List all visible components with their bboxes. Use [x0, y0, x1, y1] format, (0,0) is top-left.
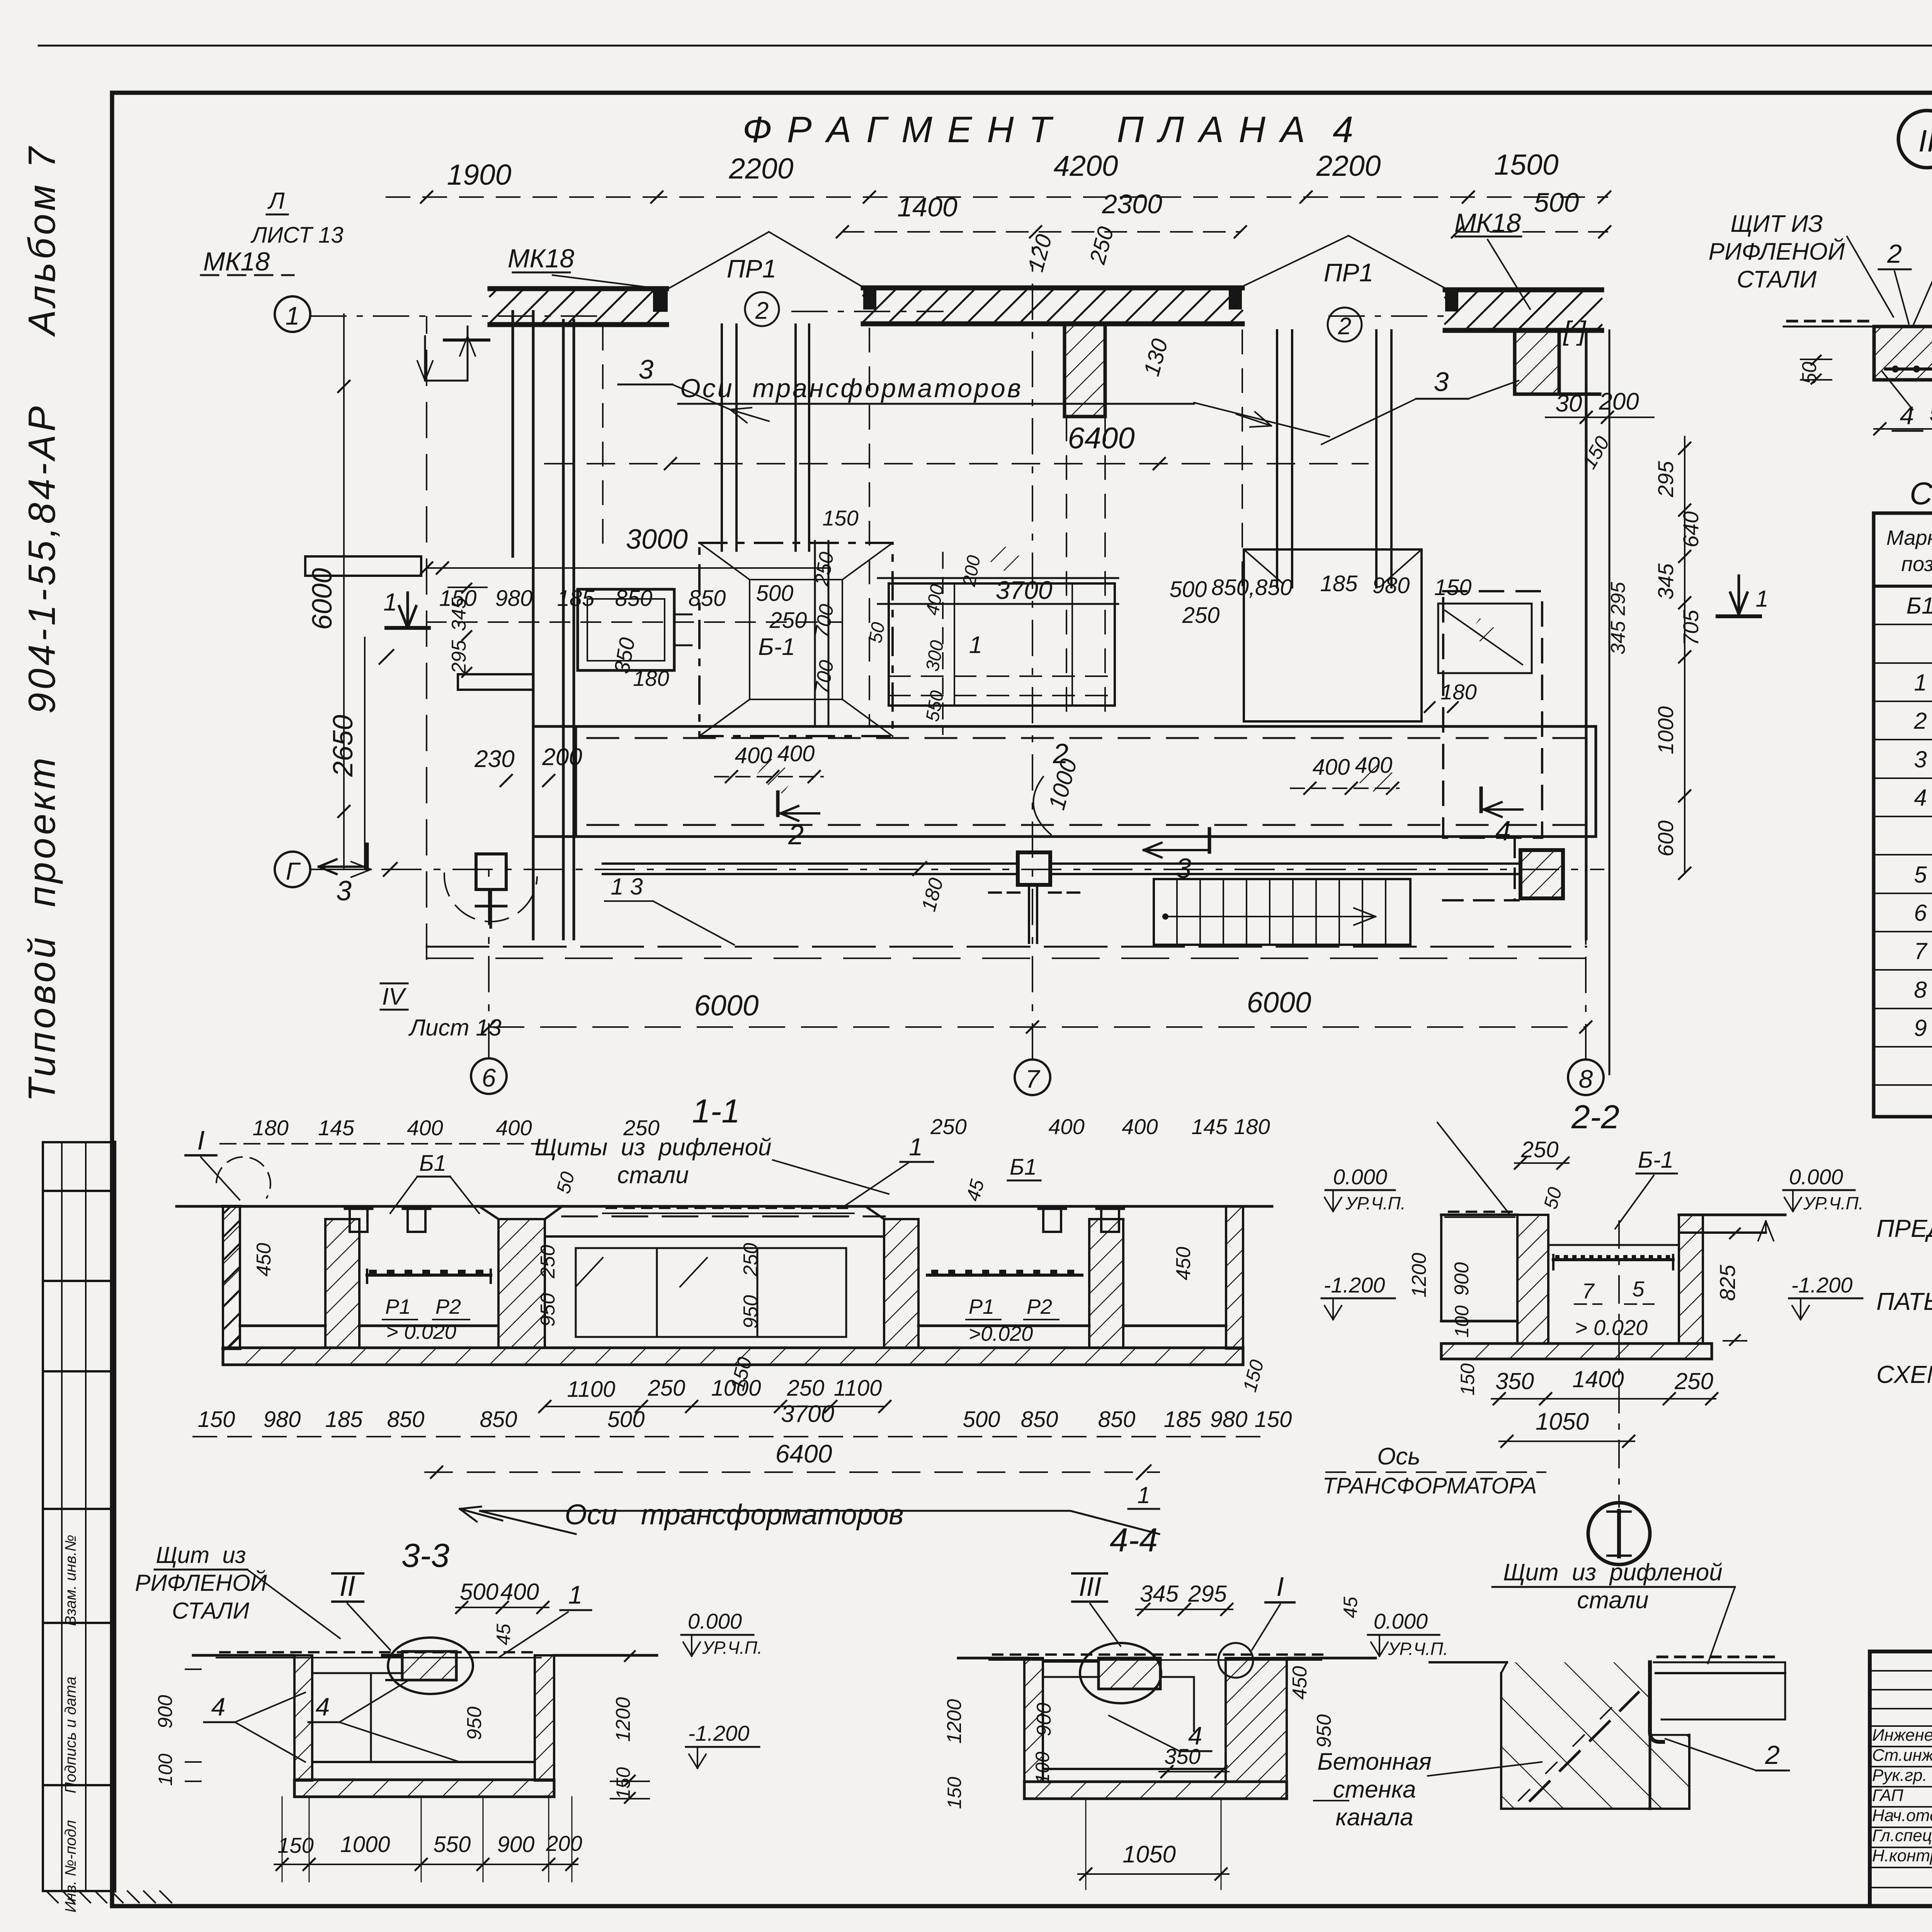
s11 mid wall big [498, 1219, 545, 1348]
square axis7/G [1018, 852, 1050, 885]
wall A end cap [653, 289, 668, 312]
svg-text:1400: 1400 [897, 192, 957, 222]
svg-text:3700: 3700 [781, 1401, 834, 1427]
svg-text:4: 4 [1900, 401, 1914, 430]
svg-text:400: 400 [500, 1579, 539, 1605]
svg-text:ПРЕДУСМОТРЕТЬ УСТАНОВКУ ЗАКЛ: ПРЕДУСМОТРЕТЬ УСТАНОВКУ ЗАКЛАДНЫХ ЭЛЕМЕН… [1876, 1214, 1932, 1242]
svg-text:500: 500 [756, 581, 794, 606]
svg-text:200: 200 [1599, 388, 1639, 415]
svg-text:185: 185 [1320, 571, 1358, 596]
left stub 1 [305, 556, 421, 576]
svg-text:7: 7 [1026, 1065, 1041, 1093]
s33 lintel top [402, 1651, 456, 1680]
svg-text:1200: 1200 [943, 1699, 966, 1744]
svg-text:6400: 6400 [1068, 421, 1135, 455]
svg-text:Оси трансформаторов: Оси трансформаторов [565, 1498, 903, 1531]
bottom-left of titleblock smudge [1870, 1904, 1932, 1908]
svg-text:СТАЛИ: СТАЛИ [172, 1598, 249, 1624]
s33 bottom slab [294, 1780, 554, 1797]
svg-text:150: 150 [944, 1777, 965, 1809]
s44 interior [1043, 1676, 1099, 1678]
svg-text:1500: 1500 [1494, 148, 1559, 181]
svg-text:345: 345 [1140, 1581, 1179, 1607]
svg-text:550: 550 [434, 1832, 471, 1857]
s22 bottom slab [1441, 1344, 1712, 1359]
svg-text:400: 400 [735, 743, 772, 768]
svg-text:1: 1 [286, 301, 300, 330]
svg-text:200: 200 [546, 1831, 582, 1855]
svg-text:Ст.инж.: Ст.инж. [1872, 1746, 1932, 1765]
svg-text:1000: 1000 [340, 1832, 390, 1857]
svg-text:МК18: МК18 [1454, 208, 1521, 238]
svg-text:1050: 1050 [1122, 1841, 1176, 1868]
svg-text:Типовой проект 904-1-55,84-: Типовой проект 904-1-55,84-АР Альбом 7 [20, 144, 63, 1102]
svg-text:ПР1: ПР1 [1324, 258, 1374, 287]
s44 oval III [1080, 1643, 1161, 1703]
svg-text:УР.Ч.П.: УР.Ч.П. [1803, 1193, 1864, 1213]
svg-text:I: I [1276, 1571, 1284, 1602]
svg-text:Инженер: Инженер [1872, 1726, 1932, 1745]
svg-text:145: 145 [318, 1116, 354, 1140]
s44 lintel [1099, 1658, 1160, 1689]
s44 pit left wall [1024, 1658, 1043, 1782]
svg-text:2650: 2650 [328, 715, 359, 777]
svg-text:250: 250 [930, 1114, 966, 1139]
beam lines right [1050, 862, 1519, 865]
detail I ground line [1430, 1661, 1507, 1663]
svg-text:5: 5 [1632, 1277, 1645, 1301]
svg-text:Гл.спец.ТО: Гл.спец.ТО [1872, 1826, 1932, 1845]
svg-text:Г: Г [286, 857, 301, 885]
svg-text:980: 980 [264, 1407, 301, 1432]
svg-text:550: 550 [1929, 400, 1932, 427]
svg-text:II: II [339, 1570, 355, 1602]
s11 left pit [240, 1325, 325, 1327]
svg-text:[ ]: [ ] [1563, 316, 1587, 346]
detail II dim 550 [1874, 428, 1932, 430]
axis circle 6 [471, 1058, 507, 1094]
svg-text:120: 120 [1023, 232, 1057, 274]
bay1 transformer cell [578, 589, 674, 670]
s22 channel floor [1548, 1342, 1679, 1345]
svg-text:950: 950 [537, 1293, 559, 1327]
svg-text:ГАП: ГАП [1872, 1786, 1903, 1805]
s11 grate right [927, 1274, 1082, 1277]
wall B [863, 286, 1242, 291]
svg-text:6: 6 [482, 1063, 496, 1092]
plan bottom boundary lines [427, 946, 1586, 948]
svg-text:III: III [1079, 1571, 1101, 1602]
title block outer [1870, 1651, 1932, 1906]
svg-text:1: 1 [383, 588, 397, 616]
svg-text:Р2: Р2 [1027, 1295, 1052, 1318]
svg-text:350: 350 [1164, 1744, 1200, 1769]
svg-text:ПАТЬ СЛОЕМ ГРАВИЯ ТОЛЩИНОЙ: ПАТЬ СЛОЕМ ГРАВИЯ ТОЛЩИНОЙ 250 мм, КРУПН… [1876, 1287, 1932, 1315]
svg-text:УР.Ч.П.: УР.Ч.П. [1388, 1639, 1448, 1659]
svg-text:850: 850 [1098, 1407, 1136, 1432]
svg-text:СТАЛИ: СТАЛИ [1737, 266, 1817, 293]
section mark 3 left low [319, 866, 367, 868]
stair [1154, 879, 1410, 945]
svg-text:Бетонная: Бетонная [1317, 1748, 1431, 1775]
s11 right wall big [884, 1219, 918, 1348]
dim 400 400 left [715, 776, 823, 777]
svg-text:Р1: Р1 [969, 1295, 994, 1318]
square axis8/G hatched [1520, 850, 1563, 898]
section arrow 1 right [1738, 576, 1740, 614]
svg-text:450: 450 [1172, 1247, 1195, 1281]
axis circle G [275, 852, 310, 887]
svg-text:0.000: 0.000 [688, 1609, 742, 1633]
svg-text:0.000: 0.000 [1374, 1609, 1428, 1633]
right vert dim chain [1684, 437, 1685, 873]
svg-text:1: 1 [1755, 586, 1768, 612]
s22 shield leader [1437, 1122, 1509, 1213]
svg-text:3700: 3700 [996, 576, 1053, 604]
svg-text:-1.200: -1.200 [1791, 1273, 1853, 1297]
detail II circle [1898, 111, 1932, 168]
svg-text:канала: канала [1335, 1804, 1413, 1831]
svg-text:350: 350 [1495, 1368, 1534, 1394]
s11 left outer wall [223, 1205, 240, 1208]
svg-text:2300: 2300 [1102, 189, 1162, 219]
s33 interior lines [312, 1672, 402, 1674]
svg-text:СХЕМУ РАСКЛАДКИ ЩИТОВ СМ. Н: СХЕМУ РАСКЛАДКИ ЩИТОВ СМ. НА ЛИСТЕ ТП 90… [1876, 1361, 1932, 1388]
svg-text:3: 3 [639, 354, 654, 384]
right wall verticals [1585, 330, 1588, 939]
bay3 inner dashed [1443, 591, 1542, 838]
s33 pit left wall [294, 1655, 312, 1781]
s44 circle I small [1218, 1643, 1253, 1678]
svg-text:500: 500 [460, 1579, 498, 1605]
svg-text:Взам. инв.№: Взам. инв.№ [62, 1535, 79, 1626]
svg-text:1050: 1050 [1536, 1408, 1589, 1435]
wall B end caps [863, 288, 876, 310]
svg-text:980: 980 [495, 586, 533, 611]
svg-text:стали: стали [1577, 1587, 1648, 1614]
svg-text:МК18: МК18 [203, 247, 270, 276]
svg-text:1900: 1900 [447, 158, 512, 191]
svg-text:30: 30 [1556, 390, 1582, 417]
svg-text:45: 45 [1340, 1597, 1361, 1618]
svg-text:400: 400 [1313, 755, 1350, 780]
svg-text:4: 4 [211, 1692, 226, 1721]
svg-text:500: 500 [607, 1407, 645, 1432]
axis 8 vertical [1585, 907, 1587, 1060]
svg-text:РИФЛЕНОЙ: РИФЛЕНОЙ [135, 1570, 267, 1596]
s33 pit right wall [535, 1655, 554, 1781]
bay2 rails [814, 541, 816, 726]
svg-text:РИФЛЕНОЙ: РИФЛЕНОЙ [1709, 238, 1845, 265]
s22 right top flare [1679, 1214, 1703, 1216]
svg-text:1200: 1200 [612, 1697, 634, 1742]
svg-text:Б-1: Б-1 [1638, 1147, 1673, 1173]
detail II rebar [1886, 367, 1932, 371]
svg-text:-1.200: -1.200 [1324, 1273, 1385, 1297]
svg-text:Щит из: Щит из [156, 1542, 246, 1568]
svg-text:Нач.отд.: Нач.отд. [1872, 1806, 1932, 1825]
svg-text:Рук.гр.: Рук.гр. [1872, 1766, 1927, 1785]
svg-text:I: I [197, 1125, 204, 1155]
axis G line [311, 869, 1604, 870]
svg-text:300: 300 [922, 639, 948, 673]
svg-text:1: 1 [909, 1133, 923, 1161]
left wall verticals [512, 311, 514, 556]
s22 right wall hatched [1679, 1215, 1703, 1344]
svg-text:ЛИСТ 13: ЛИСТ 13 [250, 223, 343, 248]
s11 oil pit left P1 P2 [359, 1325, 496, 1327]
dim 3000 plan [427, 567, 827, 569]
svg-text:Щит из рифленой: Щит из рифленой [1503, 1559, 1722, 1586]
svg-text:5: 5 [1914, 862, 1927, 888]
wall C end cap [1445, 290, 1458, 311]
priyamok right dashes [1514, 838, 1516, 900]
svg-text:Б1: Б1 [1010, 1155, 1037, 1180]
svg-text:2: 2 [755, 298, 769, 324]
svg-text:180: 180 [1440, 680, 1476, 704]
spec table grid [1874, 513, 1932, 1117]
detail I steel angle [1650, 1662, 1663, 1742]
svg-text:6: 6 [1914, 900, 1927, 926]
svg-text:поз.: поз. [1901, 553, 1932, 576]
axis circle 8 [1568, 1060, 1604, 1095]
wall C pier [1515, 330, 1559, 394]
svg-text:150: 150 [612, 1767, 634, 1799]
svg-text:295: 295 [448, 640, 470, 674]
svg-text:4: 4 [1914, 785, 1927, 811]
svg-text:УР.Ч.П.: УР.Ч.П. [1345, 1193, 1406, 1213]
svg-text:640: 640 [1679, 511, 1703, 547]
svg-text:IV: IV [382, 983, 407, 1010]
detail II concrete body [1874, 327, 1932, 380]
svg-text:250: 250 [787, 1376, 825, 1401]
svg-text:230: 230 [474, 746, 514, 772]
s22 axis vline [1618, 1221, 1620, 1507]
svg-text:6000: 6000 [1247, 986, 1311, 1019]
svg-text:400: 400 [496, 1116, 532, 1140]
section mark 3 right low [1144, 849, 1209, 851]
svg-text:250: 250 [623, 1116, 659, 1140]
axis 6 vertical [488, 869, 490, 1059]
svg-text:180: 180 [917, 876, 947, 914]
svg-text:ТРАНСФОРМАТОРА: ТРАНСФОРМАТОРА [1323, 1473, 1537, 1498]
section mark 4 plan [1484, 808, 1522, 811]
svg-text:-1.200: -1.200 [688, 1721, 750, 1745]
svg-text:1000: 1000 [711, 1376, 761, 1401]
roof lines right gap [1241, 236, 1349, 287]
s44 bottom slab [1024, 1782, 1287, 1799]
svg-text:400: 400 [777, 741, 815, 766]
s11 top dims left [220, 1143, 545, 1145]
svg-text:45: 45 [962, 1177, 988, 1203]
svg-text:150: 150 [822, 506, 858, 530]
s44 pit floor [1043, 1768, 1226, 1770]
svg-text:Оси трансформаторов: Оси трансформаторов [680, 374, 1023, 403]
wall C [1445, 287, 1602, 293]
svg-text:250: 250 [648, 1376, 685, 1401]
s11 right pit [1123, 1325, 1226, 1327]
svg-text:4: 4 [316, 1692, 330, 1721]
svg-text:180: 180 [252, 1116, 288, 1140]
svg-text:450: 450 [253, 1243, 275, 1277]
svg-text:600: 600 [1653, 820, 1678, 856]
detail I plate right [1654, 1662, 1785, 1663]
svg-text:180: 180 [1234, 1114, 1270, 1139]
svg-text:II: II [1918, 124, 1932, 158]
svg-text:1: 1 [969, 632, 982, 658]
svg-text:345 295: 345 295 [1607, 582, 1629, 655]
s11 dims below row2 [193, 1436, 1271, 1437]
svg-text:Марка,: Марка, [1886, 526, 1932, 549]
svg-text:1: 1 [1914, 670, 1927, 696]
svg-text:180: 180 [633, 666, 669, 690]
svg-text:150: 150 [277, 1833, 313, 1857]
sheet top edge line [39, 45, 1932, 47]
plan left vert dim 6000 [343, 314, 345, 869]
detail I concrete block [1501, 1662, 1689, 1809]
transformer block B [889, 583, 1115, 706]
svg-text:250: 250 [769, 608, 807, 633]
s11 ground line [177, 1205, 1272, 1208]
svg-text:Б1: Б1 [1906, 593, 1932, 619]
plan top dimension row 2 [842, 231, 1240, 233]
svg-text:3: 3 [1176, 853, 1191, 884]
s11 top plate dashes [562, 1216, 885, 1218]
left stub 2 [458, 674, 533, 690]
svg-text:2-2: 2-2 [1571, 1099, 1619, 1136]
circle 2 right [1328, 308, 1362, 342]
small dim box left [467, 327, 469, 381]
svg-text:стали: стали [617, 1162, 689, 1189]
witness dashed verticals [869, 328, 870, 726]
svg-text:900: 900 [497, 1832, 535, 1857]
svg-text:1000: 1000 [1653, 706, 1678, 755]
svg-text:Б1: Б1 [419, 1151, 446, 1176]
detail I circle mark [1588, 1503, 1650, 1565]
svg-text:2: 2 [1765, 1740, 1780, 1770]
s11 dims below row1 [545, 1406, 885, 1407]
svg-text:1000: 1000 [1044, 756, 1082, 813]
svg-text:1400: 1400 [1572, 1366, 1624, 1392]
section mark 2 [781, 812, 819, 815]
svg-text:900: 900 [1451, 1262, 1473, 1296]
svg-text:3: 3 [1434, 367, 1449, 397]
svg-text:185: 185 [1164, 1407, 1202, 1432]
svg-text:>0.020: >0.020 [969, 1322, 1033, 1345]
svg-text:150: 150 [198, 1407, 235, 1432]
svg-text:500: 500 [1534, 187, 1579, 218]
bay2 equipment [699, 543, 893, 736]
svg-text:100: 100 [1032, 1752, 1053, 1784]
svg-text:2: 2 [788, 820, 804, 850]
svg-text:295: 295 [1188, 1581, 1227, 1607]
svg-text:Б-1: Б-1 [758, 634, 795, 660]
svg-text:400: 400 [407, 1116, 443, 1140]
svg-text:295: 295 [1653, 461, 1678, 497]
s44 pit right wall wide [1226, 1658, 1287, 1782]
axis circle 1 [275, 296, 310, 332]
s11 center trench [545, 1235, 884, 1238]
detail I inner dash line [1530, 1692, 1638, 1801]
svg-text:250: 250 [1085, 224, 1119, 267]
svg-text:45: 45 [493, 1624, 514, 1645]
svg-text:Н.контр.: Н.контр. [1872, 1846, 1932, 1865]
svg-text:6400: 6400 [776, 1439, 832, 1468]
svg-text:0.000: 0.000 [1333, 1165, 1387, 1189]
svg-text:850: 850 [387, 1407, 425, 1432]
s22 channel interior [1548, 1244, 1679, 1246]
plan top dimension row 1 [386, 196, 1607, 198]
svg-text:705: 705 [1679, 609, 1703, 646]
svg-text:2: 2 [1338, 313, 1351, 340]
svg-text:9: 9 [1914, 1015, 1927, 1041]
svg-text:Подпись и дата: Подпись и дата [62, 1677, 79, 1794]
svg-text:6000: 6000 [694, 989, 759, 1022]
dim 400 400 right [1291, 787, 1399, 789]
svg-text:145: 145 [1191, 1114, 1228, 1139]
wall A [490, 286, 667, 291]
s22 grate zigzag [1553, 1258, 1673, 1261]
svg-text:ПР1: ПР1 [727, 254, 777, 283]
svg-text:0.000: 0.000 [1789, 1165, 1843, 1189]
svg-text:950: 950 [740, 1295, 762, 1329]
s22 left pit wall [1440, 1215, 1442, 1321]
svg-text:Л: Л [267, 188, 285, 214]
svg-text:130: 130 [1139, 336, 1173, 379]
s11 grate left [367, 1274, 491, 1277]
svg-text:400: 400 [1048, 1114, 1084, 1139]
svg-text:> 0.020: > 0.020 [386, 1320, 456, 1344]
axis circle 7 [1015, 1060, 1050, 1095]
svg-text:345: 345 [448, 597, 470, 631]
svg-text:> 0.020: > 0.020 [1575, 1315, 1648, 1340]
svg-text:3-3: 3-3 [401, 1537, 449, 1574]
svg-text:Р1: Р1 [385, 1295, 411, 1318]
ground hatch marks under left table [46, 1891, 58, 1903]
section mark 1 left [406, 593, 409, 628]
svg-text:100: 100 [1451, 1305, 1473, 1338]
detail II plate [1784, 326, 1876, 328]
svg-text:250: 250 [1182, 603, 1220, 628]
svg-text:1 3: 1 3 [611, 874, 643, 900]
svg-text:500: 500 [1170, 577, 1207, 602]
axis 1 line [311, 315, 603, 317]
hatch smears in trench [755, 757, 796, 794]
svg-text:450: 450 [1289, 1666, 1311, 1700]
s33 ground line [193, 1654, 294, 1657]
s11 oil pit right [918, 1325, 1089, 1327]
svg-text:ЩИТ ИЗ: ЩИТ ИЗ [1730, 211, 1823, 237]
left margin form table [43, 1141, 115, 1143]
dim 6000 left bottom [489, 1026, 1586, 1028]
svg-text:1-1: 1-1 [692, 1093, 740, 1130]
svg-text:Лист 13: Лист 13 [408, 1015, 502, 1041]
s11 wall right2 [1089, 1219, 1123, 1348]
svg-text:250: 250 [537, 1245, 559, 1279]
svg-text:50: 50 [1798, 362, 1821, 384]
svg-text:250: 250 [740, 1243, 762, 1277]
s11 hanger marks top [350, 1209, 367, 1232]
svg-text:Р2: Р2 [435, 1295, 461, 1318]
plan dim row 150 980 ... left [427, 621, 842, 623]
svg-text:950: 950 [1313, 1714, 1335, 1748]
svg-text:400: 400 [1355, 753, 1393, 778]
svg-text:МК18: МК18 [508, 244, 575, 273]
svg-text:850: 850 [689, 586, 726, 611]
svg-text:50: 50 [1539, 1185, 1566, 1211]
svg-text:1200: 1200 [1408, 1253, 1430, 1298]
svg-text:стенка: стенка [1333, 1776, 1416, 1803]
